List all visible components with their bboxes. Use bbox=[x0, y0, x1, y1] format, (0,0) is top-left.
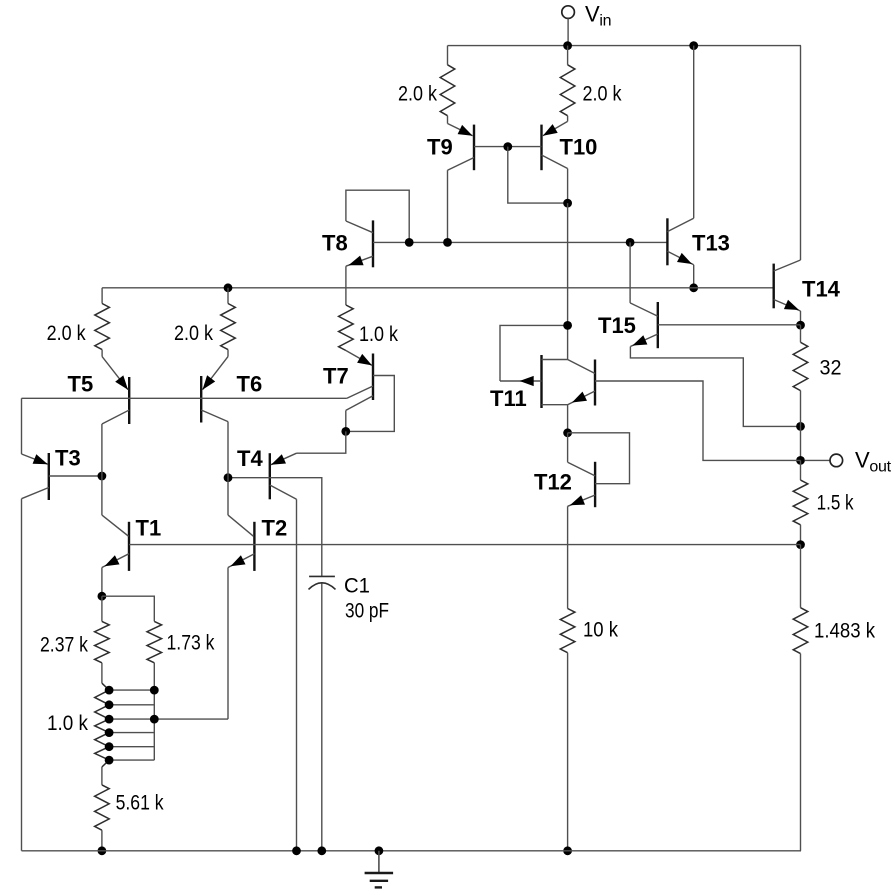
wire T4 base bbox=[228, 477, 270, 479]
wire tap 1 bbox=[109, 689, 154, 691]
svg-text:2.0 k: 2.0 k bbox=[398, 83, 437, 106]
wire T12 emitter down bbox=[567, 506, 569, 608]
node T13 collector rail junction bbox=[689, 41, 698, 50]
wire T11 collector to Vout bbox=[595, 381, 801, 460]
node Vout bbox=[796, 456, 805, 465]
wire T13 collector up bbox=[693, 46, 695, 219]
resistor 2.37 k bbox=[101, 596, 103, 621]
svg-text:T6: T6 bbox=[237, 371, 263, 396]
resistor 1.73 k bbox=[147, 621, 162, 662]
wire T4 base to C1 bbox=[270, 478, 322, 577]
node T13 emitter rail bbox=[689, 283, 698, 292]
node taps bbox=[105, 686, 114, 695]
wire T5 T6 base line bbox=[22, 397, 347, 399]
resistor 1.0 k (T7) bbox=[339, 305, 354, 351]
wire T14 emitter down bbox=[800, 311, 802, 325]
svg-text:T8: T8 bbox=[322, 231, 348, 256]
svg-text:1.0 k: 1.0 k bbox=[359, 323, 398, 346]
svg-text:T2: T2 bbox=[262, 515, 288, 540]
node T8 collector-base bbox=[405, 238, 414, 247]
wire bottom rail bbox=[22, 850, 802, 852]
wire T6 collector down bbox=[227, 422, 229, 515]
wire tap 6 bbox=[109, 759, 154, 761]
wire T8 collector loop bbox=[346, 190, 409, 242]
node 10 k bottom rail bbox=[563, 846, 572, 855]
resistor 2.0 k (T6 load) bbox=[227, 288, 229, 304]
node ground rail bbox=[375, 846, 384, 855]
wire T2 emitter down bbox=[227, 568, 229, 720]
wire T11 loop bbox=[500, 325, 568, 381]
node T12 top bbox=[563, 428, 572, 437]
wire C1 down bbox=[321, 584, 323, 851]
transistor T3 bbox=[48, 453, 50, 500]
wire T8 base line to T13 bbox=[373, 241, 667, 243]
wire T4 collector down bbox=[296, 499, 298, 851]
node 5.61 k bottom rail bbox=[98, 846, 107, 855]
wire T12 collector up bbox=[567, 433, 569, 462]
svg-text:32: 32 bbox=[820, 357, 842, 380]
wire to 1.73 k bbox=[102, 596, 154, 621]
wire T14 collector up bbox=[800, 46, 802, 260]
node T1 emitter junction bbox=[98, 592, 107, 601]
svg-text:T14: T14 bbox=[802, 277, 841, 302]
svg-text:Vin: Vin bbox=[585, 2, 611, 30]
wire T15 base to output stage bbox=[658, 324, 801, 326]
wire tap 5 bbox=[109, 746, 154, 748]
resistor 1.483 k bbox=[800, 545, 802, 608]
wire 32 to Vout node bbox=[800, 426, 802, 460]
svg-text:T12: T12 bbox=[534, 470, 572, 495]
wire T8 emitter down to 1.0 k bbox=[345, 266, 347, 305]
svg-text:T11: T11 bbox=[490, 386, 527, 411]
transistor T15 bbox=[657, 302, 659, 348]
wire base node drop bbox=[508, 147, 568, 204]
svg-text:5.61 k: 5.61 k bbox=[116, 792, 164, 815]
transistor T5 bbox=[128, 377, 130, 424]
wire T9 collector down bbox=[447, 170, 449, 242]
transistor T4 bbox=[269, 453, 271, 499]
wire T5 collector down bbox=[101, 424, 103, 515]
node T9 T10 base bbox=[503, 142, 512, 151]
wire T11 emitter down bbox=[567, 405, 569, 433]
wire T7 base branch down bbox=[345, 410, 347, 431]
transistor T10 bbox=[540, 125, 542, 171]
node T5 collector T3 base bbox=[98, 472, 107, 481]
svg-text:1.0 k: 1.0 k bbox=[47, 712, 88, 735]
transistor T1 bbox=[128, 522, 130, 571]
svg-text:T3: T3 bbox=[55, 445, 81, 470]
svg-text:T10: T10 bbox=[560, 135, 598, 160]
terminal Vin bbox=[562, 6, 575, 19]
transistor T8 bbox=[372, 220, 374, 267]
svg-text:2.0 k: 2.0 k bbox=[583, 83, 622, 106]
transistor T14 bbox=[773, 264, 775, 309]
node T7 collector-base bbox=[341, 427, 350, 436]
node T9 collector-base line bbox=[443, 238, 452, 247]
node Vin rail junction bbox=[563, 41, 572, 50]
transistor T7 bbox=[372, 354, 374, 401]
transistor T11 bbox=[540, 355, 542, 408]
wire tap 4 bbox=[109, 732, 154, 734]
wire T13 emitter down bbox=[693, 265, 695, 288]
wire tap bus vertical bbox=[153, 690, 155, 760]
wire T3 collector down bbox=[21, 499, 23, 851]
svg-text:T4: T4 bbox=[237, 446, 263, 471]
svg-text:T15: T15 bbox=[598, 313, 636, 338]
capacitor C1 bbox=[309, 575, 335, 577]
wire T3 base bbox=[49, 475, 102, 477]
node T14 emitter bbox=[796, 321, 805, 330]
wire tap 2 bbox=[109, 704, 154, 706]
node T6 collector T4 base bbox=[224, 473, 233, 482]
resistor 1.5 k bbox=[800, 460, 802, 480]
svg-text:30 pF: 30 pF bbox=[345, 600, 389, 623]
svg-text:T1: T1 bbox=[136, 515, 162, 540]
node T10 collector junction bbox=[563, 199, 572, 208]
wire T10 collector down bbox=[567, 169, 569, 204]
resistor 5.61 k bbox=[101, 767, 103, 785]
wire T9 T10 base link bbox=[474, 146, 542, 148]
resistor 2.0 k (T5 load) bbox=[101, 288, 103, 304]
svg-text:T7: T7 bbox=[323, 363, 349, 388]
wire tap 3 to T2 emitter bbox=[109, 718, 228, 720]
node 32 ohm bottom bbox=[796, 422, 805, 431]
wire second rail bbox=[102, 287, 774, 289]
resistor 1.0 k tapped bbox=[95, 683, 109, 767]
transistor T9 bbox=[473, 125, 475, 171]
svg-text:2.0 k: 2.0 k bbox=[47, 322, 86, 345]
svg-text:T5: T5 bbox=[68, 371, 94, 396]
svg-text:1.483 k: 1.483 k bbox=[814, 620, 875, 643]
node C1 rail bbox=[317, 846, 326, 855]
svg-text:T13: T13 bbox=[692, 231, 730, 256]
wire T7 collector loop bbox=[346, 376, 395, 432]
node T11 loop top bbox=[563, 321, 572, 330]
ground bbox=[378, 851, 380, 873]
wire T1 emitter down bbox=[101, 568, 103, 597]
node T15 branch bbox=[626, 238, 635, 247]
svg-text:1.5 k: 1.5 k bbox=[817, 492, 854, 515]
wire Vin to top rail bbox=[567, 18, 569, 45]
resistor 2.0 k (T10 load) bbox=[567, 46, 569, 65]
svg-text:10 k: 10 k bbox=[583, 619, 618, 642]
svg-text:2.37 k: 2.37 k bbox=[40, 634, 88, 657]
wire central vertical upper bbox=[567, 203, 569, 359]
resistor 32 bbox=[800, 325, 802, 342]
node 1.5 k bottom long line bbox=[796, 540, 805, 549]
wire T7 to T4 emitter bbox=[297, 431, 346, 453]
svg-text:Vout: Vout bbox=[855, 448, 892, 476]
svg-text:1.73 k: 1.73 k bbox=[167, 632, 215, 655]
transistor T12 bbox=[594, 462, 596, 507]
svg-text:2.0 k: 2.0 k bbox=[174, 322, 213, 345]
node rail T6 resistor bbox=[224, 283, 233, 292]
wire long base line bbox=[129, 544, 801, 546]
transistor T13 bbox=[666, 218, 668, 265]
svg-text:T9: T9 bbox=[427, 135, 453, 160]
node T4 collector rail bbox=[292, 846, 301, 855]
wire T12 base loop bbox=[568, 433, 630, 484]
transistor T2 bbox=[253, 522, 255, 571]
resistor 2.0 k (T9 load) bbox=[447, 46, 449, 65]
wire T15 emitter step bbox=[630, 347, 800, 427]
resistor 10 k bbox=[560, 609, 575, 653]
svg-text:C1: C1 bbox=[344, 574, 370, 597]
terminal Vout bbox=[805, 459, 830, 461]
transistor T6 bbox=[200, 376, 202, 423]
wire top rail bbox=[448, 45, 802, 47]
